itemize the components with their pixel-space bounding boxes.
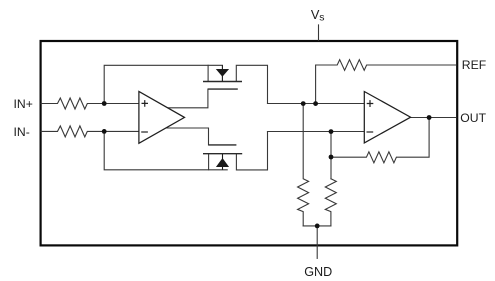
svg-text:OUT: OUT — [460, 111, 486, 125]
svg-text:IN+: IN+ — [14, 97, 33, 111]
svg-text:REF: REF — [462, 58, 486, 72]
svg-text:s: s — [319, 12, 324, 24]
svg-text:IN-: IN- — [14, 125, 30, 139]
svg-text:GND: GND — [304, 265, 332, 279]
